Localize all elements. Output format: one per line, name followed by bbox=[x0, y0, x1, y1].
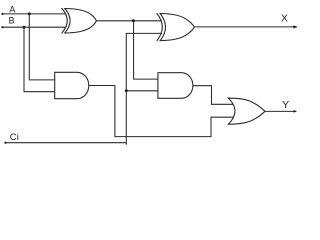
node B wire start bbox=[1, 26, 3, 28]
wire Ci bbox=[5, 142, 126, 144]
xor gate U2 (sum = (A xor B) xor Ci) bbox=[157, 14, 194, 41]
svg-text:Y: Y bbox=[282, 99, 289, 111]
wire Ci branch to AND2 bottom input bbox=[126, 90, 158, 92]
wire A bbox=[2, 13, 66, 15]
wire XOR1 output to XOR2 top input bbox=[96, 20, 161, 22]
wire B bbox=[2, 26, 65, 28]
wire B branch down to AND1 bottom input bbox=[24, 27, 55, 92]
arrowhead X bbox=[293, 25, 297, 28]
node junction Ci riser bbox=[125, 89, 128, 92]
svg-text:Ci: Ci bbox=[10, 132, 19, 143]
or gate U5 (carry out) bbox=[228, 98, 265, 124]
node junction XOR1 output bbox=[132, 19, 135, 22]
svg-text:X: X bbox=[281, 14, 288, 25]
wire Ci riser up to XOR2 bottom input bbox=[126, 33, 161, 144]
wire Y output bbox=[265, 110, 296, 112]
wire X output bbox=[194, 26, 296, 28]
node junction A bbox=[28, 12, 31, 15]
wire A branch down to AND1 top input bbox=[29, 14, 55, 80]
wire XOR1 output branch down to AND2 top input bbox=[134, 21, 159, 79]
svg-text:A: A bbox=[9, 4, 15, 14]
node junction B bbox=[23, 26, 26, 29]
xor gate U1 (A xor B) bbox=[62, 8, 97, 33]
wire AND1 output to OR bottom input bbox=[89, 86, 234, 137]
and gate U3 (A and B) bbox=[55, 72, 89, 98]
node Ci wire start bbox=[4, 142, 6, 144]
arrowhead Y bbox=[294, 110, 297, 113]
node A wire start bbox=[1, 13, 3, 15]
wire AND2 output to OR top input bbox=[193, 86, 234, 105]
and gate U4 ((A xor B) and Ci) bbox=[158, 73, 193, 99]
svg-text:B: B bbox=[9, 15, 15, 25]
